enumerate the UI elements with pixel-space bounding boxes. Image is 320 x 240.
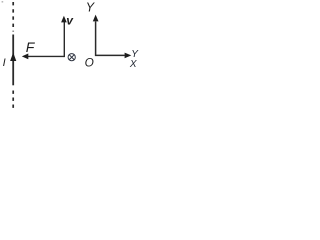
wire solid segment — [12, 35, 14, 86]
stray mark top-left — [2, 1, 4, 3]
wire dash-dot line bottom segment — [12, 91, 14, 109]
svg-text:F: F — [26, 39, 36, 55]
Y axis arrowhead — [93, 15, 99, 22]
velocity arrow v shaft — [63, 22, 65, 58]
force arrow F shaft — [28, 55, 65, 57]
wire dash-dot line top segment — [12, 2, 14, 32]
svg-text:X: X — [129, 59, 137, 70]
velocity arrow v head — [61, 16, 67, 23]
current direction arrowhead on wire — [10, 53, 16, 62]
into-page symbol cross — [69, 55, 74, 60]
force arrow F head — [22, 54, 29, 60]
into-page symbol circle — [68, 54, 75, 61]
svg-text:I: I — [3, 57, 6, 69]
X axis arrowhead — [125, 53, 132, 59]
Y axis shaft — [96, 22, 125, 56]
svg-text:O: O — [85, 55, 94, 69]
